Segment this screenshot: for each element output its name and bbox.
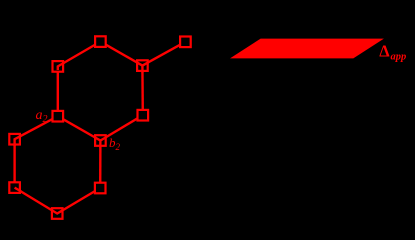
wire bond N9-N11 [15,188,58,214]
node N8 (site marker, square) [95,135,107,147]
node N2 (site marker, square) [95,36,106,47]
parallelogram (superconducting plane) [230,39,384,59]
node N5 (site marker, square) [53,111,64,122]
wire bond N2-N3 [100,42,142,66]
node N7 (site marker, square) [9,134,20,146]
wire bond N8-N10 [99,141,102,189]
node N10 (site marker, square) [95,183,106,194]
label Delta_app (superconducting gap) [379,42,406,63]
wire bond N6-N8 [100,115,142,140]
wire bond N7-N9 [13,139,15,187]
label a2 (lattice vector) [36,108,48,125]
node N4 (site marker, square) [180,37,191,48]
wire bond N3-N6 [141,66,144,116]
wire bond N4-N3 [142,42,185,66]
wire bond N2-N1 [58,42,101,67]
node N6 (site marker, square) [138,110,149,121]
label b2 (lattice vector) [109,135,121,152]
wire bond N5-N8 [58,116,101,140]
node N3 (site marker, square) [137,60,149,72]
wire bond N1-N5 [57,66,59,116]
wire bond N5-N7 [15,116,58,139]
node N1 (site marker, square) [53,61,65,72]
wire bond N10-N11 [57,188,100,214]
node N11 (site marker, square) [51,208,63,219]
node N9 (site marker, square) [9,182,21,193]
